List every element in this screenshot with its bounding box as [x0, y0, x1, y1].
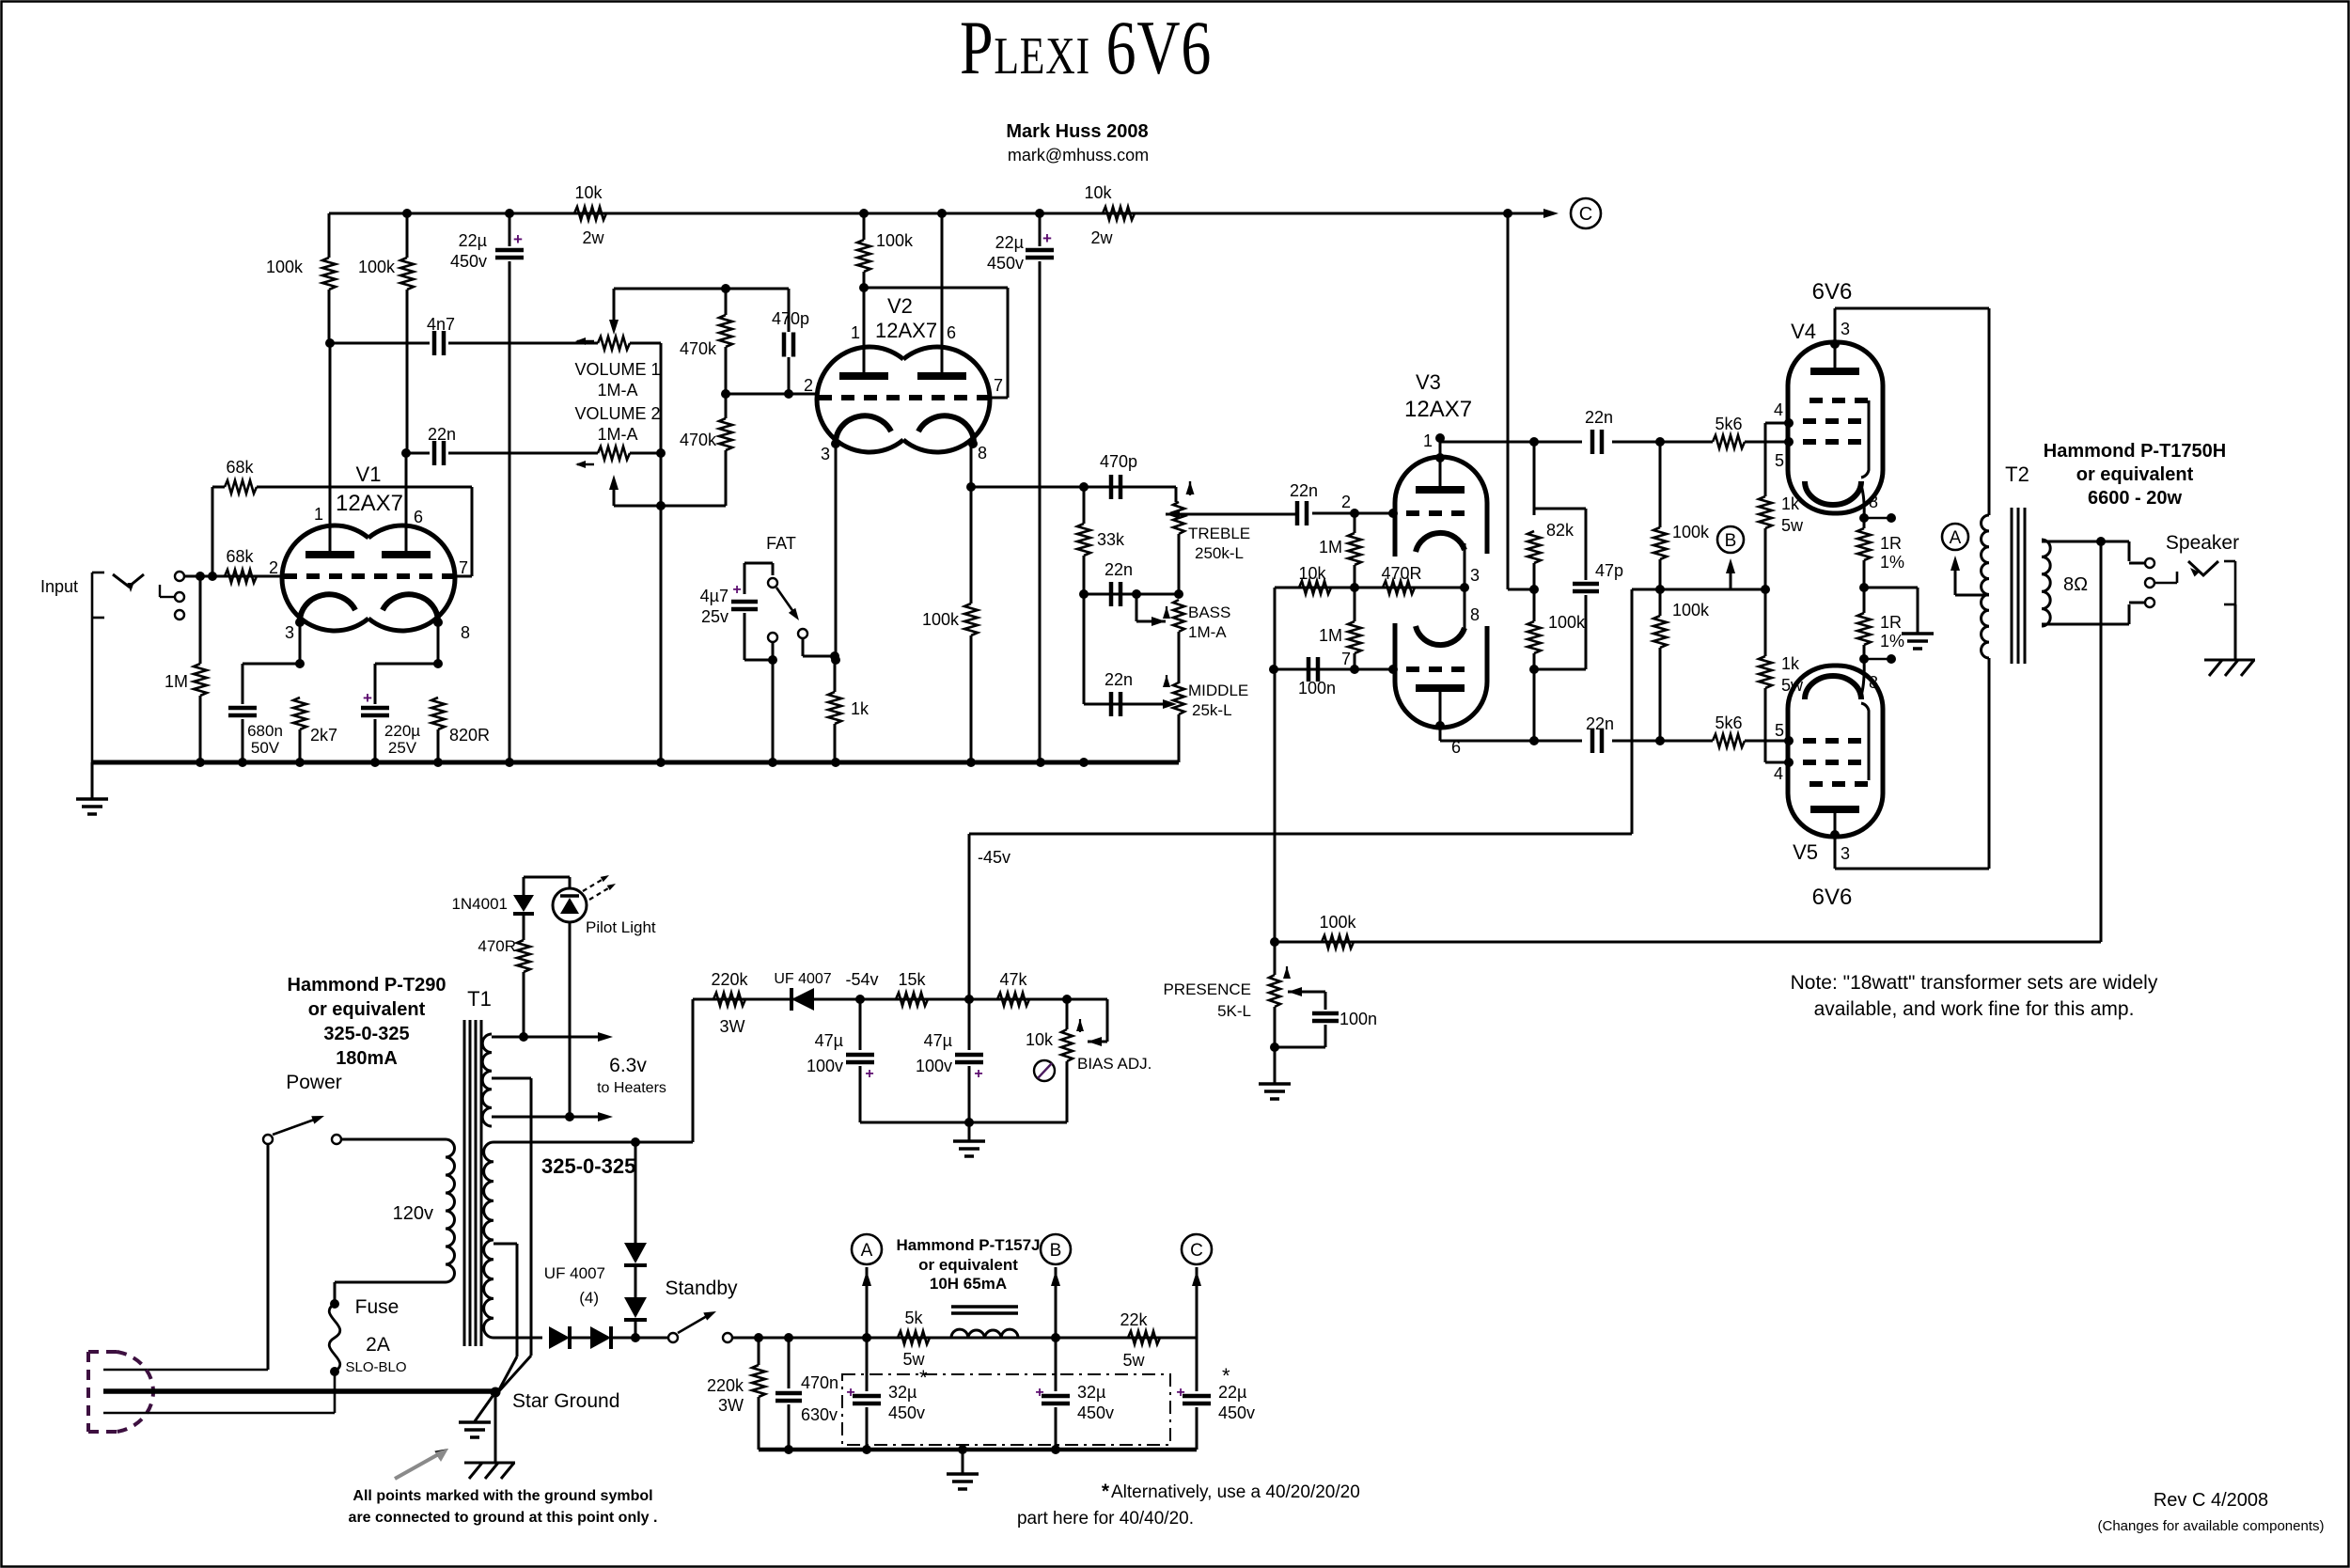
svg-text:3W: 3W: [718, 1396, 744, 1415]
V1 cathode pin8 wire: [433, 618, 443, 627]
svg-text:part here for 40/40/20.: part here for 40/40/20.: [1017, 1509, 1194, 1529]
svg-text:2k7: 2k7: [310, 726, 337, 745]
svg-text:100k: 100k: [1672, 523, 1710, 541]
wire pin7 stub: [455, 575, 472, 578]
svg-text:(4): (4): [579, 1289, 599, 1307]
svg-text:22n: 22n: [428, 425, 456, 444]
wire presence feed: [1274, 669, 1277, 942]
V5 pin3 plate lead: [1834, 837, 1837, 869]
svg-text:All points marked with the gro: All points marked with the ground symbol: [352, 1488, 652, 1504]
T2 secondary winding: [2042, 540, 2050, 626]
svg-text:325-0-325: 325-0-325: [541, 1154, 635, 1178]
resistor 100k V4 grid leak: [1659, 442, 1662, 527]
svg-text:*: *: [1102, 1481, 1110, 1502]
svg-text:5w: 5w: [1122, 1351, 1145, 1370]
resistor 10k tail: [1299, 581, 1331, 594]
svg-text:82k: 82k: [1546, 521, 1574, 540]
svg-text:2w: 2w: [582, 228, 604, 247]
wire V3 bias node: [1275, 587, 1465, 589]
capacitor 22u 450v (second filter): [1039, 213, 1042, 246]
AC earth lead thick: [103, 1388, 495, 1394]
title PLEXI 6V6: [960, 4, 1212, 89]
capacitor 47u 100v second: [968, 999, 971, 1050]
V2 cathode left: [836, 416, 891, 445]
wire 10k/100n left vertical: [1274, 588, 1277, 669]
resistor 1k 5w lower screen: [1764, 589, 1767, 656]
svg-text:SLO-BLO: SLO-BLO: [345, 1359, 406, 1375]
wire V3 pin6 line: [1440, 740, 1582, 743]
V1 plate bar left: [305, 551, 354, 558]
capacitor 100n: [1307, 657, 1311, 682]
svg-text:450v: 450v: [450, 252, 487, 271]
heater center tap: [492, 1077, 531, 1080]
svg-text:1M-A: 1M-A: [1188, 623, 1227, 641]
svg-text:32µ: 32µ: [1077, 1383, 1105, 1402]
svg-text:6: 6: [414, 508, 423, 526]
resistor 470k (to volume 2): [725, 394, 728, 418]
resistor 82k: [1533, 442, 1536, 515]
svg-text:+: +: [513, 230, 523, 248]
svg-text:32µ: 32µ: [888, 1383, 916, 1402]
capacitor 22n (V1 to Volume2): [432, 441, 437, 465]
svg-text:C: C: [1190, 1241, 1203, 1261]
svg-text:+: +: [1035, 1385, 1043, 1401]
dashed multicap box: [842, 1374, 1170, 1445]
svg-text:22n: 22n: [1585, 408, 1613, 427]
svg-text:630v: 630v: [801, 1405, 838, 1424]
wire 22n to Volume2: [448, 452, 598, 455]
V2 plate bar right: [917, 372, 966, 380]
svg-text:4: 4: [1774, 764, 1783, 783]
wire to treble pot top: [1175, 487, 1178, 502]
primary top lead: [337, 1138, 446, 1141]
svg-text:T2: T2: [2005, 463, 2029, 486]
svg-text:Fuse: Fuse: [355, 1296, 399, 1318]
V4 beam line: [1861, 400, 1869, 478]
resistor 10k 2w (second): [1103, 207, 1135, 220]
svg-text:7: 7: [1341, 650, 1351, 668]
V5 pin4 screen stub: [1765, 761, 1789, 764]
svg-text:+: +: [846, 1385, 854, 1401]
svg-text:A: A: [861, 1241, 873, 1261]
node C arrow psu: [1196, 1267, 1198, 1338]
svg-text:5k: 5k: [904, 1309, 923, 1327]
V2 pin6 wire direct to rail: [941, 213, 944, 376]
svg-text:6V6: 6V6: [1812, 279, 1853, 305]
resistor 33k: [1083, 487, 1086, 524]
wire -45v line: [969, 833, 1632, 836]
svg-text:10H 65mA: 10H 65mA: [930, 1275, 1007, 1293]
svg-text:220k: 220k: [711, 970, 748, 989]
wire volume1 right terminal: [630, 342, 661, 345]
svg-text:2: 2: [269, 558, 278, 577]
svg-text:or equivalent: or equivalent: [308, 999, 426, 1020]
resistor 100k V1 plate load B: [406, 213, 409, 258]
svg-text:VOLUME 1: VOLUME 1: [574, 360, 660, 379]
node A circle and arrow: [1942, 524, 1968, 550]
svg-text:8: 8: [461, 623, 470, 642]
potentiometer VOLUME 1 1M-A: [613, 289, 616, 323]
svg-text:+: +: [1176, 1385, 1184, 1401]
speaker ground: [2234, 604, 2237, 660]
V4 pin3 plate lead: [1834, 308, 1837, 342]
svg-text:680n: 680n: [247, 722, 283, 740]
node B circle and arrow: [1717, 526, 1744, 553]
svg-text:+: +: [732, 582, 741, 598]
V3 grid dashed upper pin2: [1406, 510, 1466, 516]
wire bias node row: [1632, 588, 1765, 591]
V2 pin7 bracket to pin1 node: [988, 397, 1008, 400]
svg-text:1R: 1R: [1880, 534, 1902, 553]
resistor 5k6 V4 grid stopper: [1713, 435, 1745, 448]
svg-text:120v: 120v: [393, 1203, 433, 1224]
svg-text:2A: 2A: [366, 1334, 390, 1356]
capacitor 4u7 25v: [744, 563, 746, 594]
potentiometer TREBLE 250k-L: [1173, 502, 1184, 534]
tube V2 12AX7 envelope: [817, 347, 903, 452]
svg-text:V3: V3: [1416, 370, 1441, 394]
V2 pin3 cathode wire: [831, 439, 840, 448]
svg-text:100n: 100n: [1339, 1010, 1377, 1028]
svg-text:100k: 100k: [266, 258, 304, 276]
resistor 220k 3W bias feed: [713, 993, 745, 1006]
svg-text:BASS: BASS: [1188, 604, 1230, 621]
resistor 100k NFB: [1322, 935, 1354, 949]
svg-text:3: 3: [285, 623, 294, 642]
resistor 5k6 V5 grid stopper: [1713, 734, 1745, 747]
svg-text:470p: 470p: [1100, 452, 1137, 471]
svg-text:10k: 10k: [1298, 564, 1326, 583]
svg-text:220µ: 220µ: [384, 722, 420, 740]
V3 cathode upper: [1416, 533, 1465, 552]
capacitor 680n 50V: [243, 663, 300, 666]
svg-text:2: 2: [804, 376, 813, 395]
V3 plate bar lower: [1416, 684, 1465, 692]
svg-text:Note: "18watt" transformer set: Note: "18watt" transformer sets are wide…: [1791, 972, 2158, 994]
V4 pin8 cathode lead: [1861, 485, 1864, 518]
capacitor 220u 25V cathode bypass: [375, 663, 438, 666]
svg-text:1: 1: [851, 323, 860, 342]
svg-text:12AX7: 12AX7: [336, 491, 403, 516]
V1 cathode right: [383, 594, 438, 623]
svg-text:T1: T1: [467, 987, 492, 1011]
svg-text:100k: 100k: [358, 258, 396, 276]
svg-text:4n7: 4n7: [427, 315, 455, 334]
V5 beam line: [1861, 703, 1869, 780]
resistor 1M lower grid: [1354, 588, 1356, 621]
svg-text:Alternatively, use a 40/20/20/: Alternatively, use a 40/20/20/20: [1111, 1482, 1360, 1502]
svg-text:C: C: [1579, 204, 1592, 225]
fuse: [330, 1299, 339, 1309]
resistor 5k 5w: [898, 1331, 930, 1344]
wire fat to cathode: [772, 660, 775, 762]
resistor 100k V2 cathode follower load: [970, 487, 973, 604]
V4 plate bar: [1810, 368, 1859, 375]
star ground 3bar: [475, 1392, 495, 1421]
svg-text:+: +: [363, 689, 372, 707]
capacitor 22n upper coupling: [1590, 430, 1595, 454]
junction dots on B+ rail: [402, 209, 412, 218]
vertical B+ feed to V3 loads: [1507, 213, 1510, 589]
wire volume top link: [614, 288, 789, 290]
wire 4n7 node line: [330, 342, 430, 345]
wire input node: [200, 575, 284, 578]
svg-text:470p: 470p: [772, 309, 809, 328]
HV top tap: [493, 1141, 693, 1144]
star ground chassis: [494, 1392, 497, 1463]
tube V4 6V6 envelope: [1788, 342, 1883, 513]
svg-text:6600 - 20w: 6600 - 20w: [2088, 488, 2183, 509]
svg-text:-45v: -45v: [978, 848, 1010, 867]
AC neutral lead: [103, 1412, 335, 1415]
capacitor 22u 450v psu: [1196, 1338, 1198, 1391]
svg-text:10k: 10k: [1084, 183, 1112, 202]
V2 grid dashed line: [819, 395, 988, 400]
svg-text:100k: 100k: [1548, 613, 1586, 632]
wire 22n node line: [406, 452, 430, 455]
V3 cathode link: [1464, 543, 1466, 632]
svg-text:A: A: [1950, 528, 1962, 548]
svg-text:+: +: [974, 1066, 982, 1082]
svg-text:180mA: 180mA: [336, 1048, 398, 1069]
svg-text:6V6: 6V6: [1812, 885, 1853, 910]
resistor 470R pilot: [517, 940, 530, 972]
svg-text:Star Ground: Star Ground: [512, 1390, 619, 1412]
resistor 220k 3W bleeder: [758, 1338, 760, 1365]
svg-text:25k-L: 25k-L: [1192, 701, 1232, 719]
svg-text:7: 7: [994, 376, 1003, 395]
svg-text:Hammond P-T290: Hammond P-T290: [288, 975, 446, 996]
svg-text:250k-L: 250k-L: [1195, 544, 1244, 562]
resistor 1R 1% lower: [1863, 588, 1866, 613]
primary bottom lead: [335, 1281, 446, 1284]
svg-text:325-0-325: 325-0-325: [323, 1024, 409, 1044]
resistor 1M input: [199, 576, 202, 664]
diode pair horizontal: [635, 1337, 669, 1340]
svg-text:Mark Huss 2008: Mark Huss 2008: [1006, 121, 1148, 142]
svg-text:68k: 68k: [226, 547, 254, 566]
V2 pin8 cathode wire: [968, 439, 978, 448]
potentiometer PRESENCE 5K-L: [1274, 942, 1277, 975]
svg-text:1k: 1k: [851, 699, 869, 718]
svg-text:4µ7: 4µ7: [700, 587, 728, 605]
T1 primary winding 120v: [446, 1139, 455, 1282]
V2 cathode right: [918, 416, 974, 445]
svg-text:1M: 1M: [1319, 538, 1342, 557]
psu ground symbol: [962, 1450, 964, 1473]
ground rail preamp: [92, 760, 1179, 765]
cathode ground elbow: [1864, 587, 1918, 589]
svg-text:12AX7: 12AX7: [875, 319, 937, 342]
svg-text:47k: 47k: [999, 970, 1027, 989]
capacitor 47p: [1534, 508, 1586, 510]
heater tap top: [492, 1036, 602, 1039]
tube V5 6V6 envelope: [1788, 666, 1883, 837]
resistor 100k V2 plate load: [863, 213, 866, 240]
capacitor 100n presence: [1324, 1006, 1327, 1010]
svg-text:3: 3: [1841, 844, 1850, 863]
svg-text:5w: 5w: [1781, 516, 1804, 535]
wire B+ top rail: [329, 212, 1508, 215]
svg-text:Standby: Standby: [665, 1278, 738, 1299]
T2 secondary bottom lead: [2042, 623, 2129, 626]
resistor 1k V2 cathode: [834, 656, 837, 692]
gray arrow: [395, 1452, 442, 1479]
svg-text:5: 5: [1775, 721, 1784, 740]
FAT switch: [744, 562, 773, 565]
svg-text:15k: 15k: [898, 970, 926, 989]
bias ground rail: [860, 1121, 1067, 1124]
svg-text:100v: 100v: [916, 1057, 952, 1075]
V1 cathode left: [300, 594, 355, 623]
capacitor 470p treble: [1109, 475, 1114, 499]
svg-text:2w: 2w: [1090, 228, 1113, 247]
resistor 68k upper: [211, 487, 214, 576]
resistor 1k 5w upper screen: [1764, 423, 1767, 496]
svg-text:10k: 10k: [1026, 1030, 1054, 1049]
capacitor 22n bass: [1084, 593, 1179, 596]
star ground node: [491, 1388, 501, 1398]
V5 grid rows: [1809, 781, 1869, 787]
svg-text:6.3v: 6.3v: [609, 1055, 647, 1076]
resistor 100k V3 lower load: [1533, 589, 1536, 621]
svg-text:450v: 450v: [987, 254, 1024, 273]
svg-text:PRESENCE: PRESENCE: [1163, 980, 1251, 998]
V1 cathode pin3 wire: [295, 618, 305, 627]
svg-text:UF 4007: UF 4007: [774, 971, 831, 987]
capacitor 470n 630v: [788, 1338, 791, 1388]
resistor 2k7: [293, 698, 306, 729]
wire to V4 grid: [1612, 441, 1713, 444]
svg-text:5k6: 5k6: [1715, 713, 1742, 732]
capacitor 22n to V3 grid: [1295, 501, 1300, 525]
T2 secondary top lead: [2042, 541, 2129, 543]
svg-text:22n: 22n: [1104, 560, 1133, 579]
V5 plate bar: [1810, 806, 1859, 813]
V4 cathode arc: [1805, 481, 1861, 505]
svg-text:B: B: [1725, 531, 1737, 551]
svg-text:8: 8: [1869, 673, 1878, 692]
svg-text:are connected to ground at thi: are connected to ground at this point on…: [349, 1510, 658, 1526]
T2 primary lead top: [1988, 308, 1991, 515]
AC plug: [88, 1350, 117, 1354]
HV bottom tap: [493, 1337, 542, 1340]
svg-text:mark@mhuss.com: mark@mhuss.com: [1008, 146, 1149, 165]
svg-text:TREBLE: TREBLE: [1188, 525, 1250, 542]
svg-text:3: 3: [1470, 566, 1480, 585]
wire B+ rail psu: [732, 1337, 1197, 1340]
svg-text:V5: V5: [1793, 840, 1818, 864]
T1 core: [463, 1020, 466, 1346]
capacitor 22u 450v (first filter): [509, 213, 511, 246]
svg-text:470R: 470R: [1381, 564, 1421, 583]
V4 grid rows: [1809, 398, 1869, 403]
T2 core: [2011, 508, 2013, 664]
svg-text:Hammond P-T1750H: Hammond P-T1750H: [2044, 441, 2227, 462]
resistor 10k 2w (first): [574, 207, 606, 220]
psu ground rail: [759, 1448, 1197, 1452]
V4 cathode node: [1863, 518, 1866, 528]
V3 pin6 plate wire: [1439, 688, 1442, 741]
svg-text:22n: 22n: [1290, 481, 1318, 500]
svg-text:450v: 450v: [888, 1403, 925, 1422]
svg-text:V1: V1: [356, 463, 382, 486]
V5 cathode stub: [1864, 658, 1891, 661]
svg-text:22k: 22k: [1120, 1310, 1148, 1329]
pilot light LED: [524, 876, 570, 879]
diode stack vertical UF4007: [634, 1142, 637, 1243]
svg-text:to Heaters: to Heaters: [597, 1080, 666, 1096]
svg-text:47µ: 47µ: [924, 1031, 952, 1050]
svg-text:12AX7: 12AX7: [1404, 397, 1472, 422]
V1 grid dashed line: [284, 573, 453, 579]
capacitor 22n middle: [1083, 594, 1086, 704]
svg-text:5K-L: 5K-L: [1217, 1002, 1251, 1020]
svg-text:6: 6: [947, 323, 956, 342]
resistor 100k V1 plate load A: [328, 213, 331, 258]
bias trimmer circle: [1034, 1060, 1055, 1081]
svg-text:25V: 25V: [388, 739, 417, 757]
svg-text:B: B: [1050, 1241, 1062, 1261]
V1 plate bar right: [382, 551, 431, 558]
svg-text:50V: 50V: [251, 739, 280, 757]
svg-text:1M: 1M: [1319, 626, 1342, 645]
capacitor 470p (across V2 grid): [788, 289, 791, 332]
presence ground: [1274, 1047, 1277, 1083]
svg-text:2: 2: [1341, 493, 1351, 511]
ground symbol main left: [91, 762, 94, 798]
svg-text:or equivalent: or equivalent: [918, 1256, 1018, 1274]
tube V3 12AX7 envelope vertical: [1395, 457, 1487, 557]
svg-text:100n: 100n: [1298, 679, 1336, 698]
svg-text:22µ: 22µ: [995, 233, 1024, 252]
svg-text:100k: 100k: [922, 610, 960, 629]
potentiometer 10k bias adj: [1066, 999, 1069, 1029]
svg-text:BIAS ADJ.: BIAS ADJ.: [1077, 1055, 1151, 1073]
NFB wire from secondary: [2100, 541, 2103, 942]
svg-text:1: 1: [1423, 431, 1433, 450]
tube V1 12AX7 envelope: [282, 525, 368, 631]
resistor 470R: [1383, 581, 1415, 594]
svg-text:1%: 1%: [1880, 632, 1904, 651]
svg-text:100v: 100v: [807, 1057, 843, 1075]
svg-text:1%: 1%: [1880, 553, 1904, 572]
resistor 470k (to volume 1): [725, 289, 728, 315]
potentiometer VOLUME 2 1M-A: [598, 447, 630, 460]
svg-text:10k: 10k: [574, 183, 603, 202]
svg-text:+: +: [865, 1066, 873, 1082]
resistor 1M upper grid: [1354, 513, 1356, 533]
svg-text:V4: V4: [1791, 320, 1816, 343]
heater tap bottom: [492, 1116, 602, 1119]
svg-text:4: 4: [1774, 400, 1783, 419]
capacitor 32u 450v second: [1055, 1338, 1057, 1391]
svg-text:Speaker: Speaker: [2166, 532, 2239, 554]
svg-text:7: 7: [459, 558, 468, 577]
input jack: [91, 572, 94, 618]
svg-text:+: +: [1042, 229, 1052, 247]
pilot cathode wire: [569, 922, 572, 1117]
svg-text:100k: 100k: [1672, 601, 1710, 619]
svg-text:Power: Power: [286, 1072, 342, 1093]
svg-text:available, and work fine for t: available, and work fine for this amp.: [1814, 998, 2135, 1020]
svg-text:68k: 68k: [226, 458, 254, 477]
svg-text:47p: 47p: [1595, 561, 1623, 580]
V3 grid dashed lower pin7: [1406, 666, 1466, 672]
svg-text:V2: V2: [887, 294, 913, 318]
svg-text:MIDDLE: MIDDLE: [1188, 682, 1248, 699]
T2 primary winding: [1982, 515, 1989, 658]
